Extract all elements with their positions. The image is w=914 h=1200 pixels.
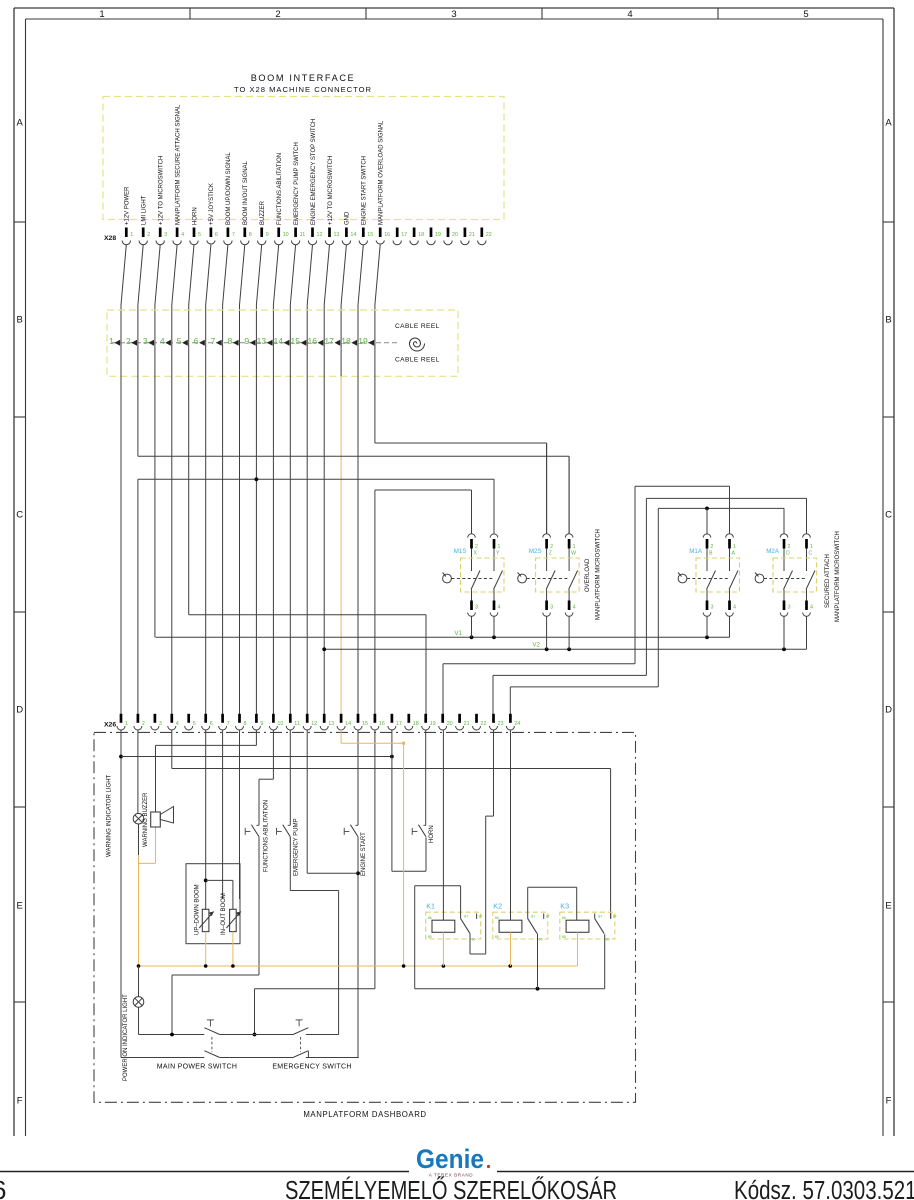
svg-text:14: 14: [274, 336, 284, 346]
svg-text:MANPLATFORM MICROSWITCH: MANPLATFORM MICROSWITCH: [835, 531, 841, 622]
svg-text:7: 7: [227, 721, 230, 727]
svg-text:1: 1: [130, 232, 133, 238]
svg-text:6: 6: [194, 336, 199, 346]
svg-text:C: C: [16, 510, 23, 521]
svg-text:20: 20: [452, 232, 458, 238]
svg-text:E: E: [17, 901, 23, 912]
svg-text:HORN: HORN: [429, 825, 435, 843]
svg-text:13: 13: [334, 232, 340, 238]
svg-text:MANPLATFORM OVERLOAD SIGNAL: MANPLATFORM OVERLOAD SIGNAL: [379, 120, 385, 225]
svg-text:Z: Z: [549, 551, 552, 557]
svg-text:23: 23: [498, 721, 504, 727]
svg-text:17: 17: [396, 721, 402, 727]
svg-text:9: 9: [260, 721, 263, 727]
svg-text:86: 86: [495, 916, 499, 920]
svg-text:M2A: M2A: [766, 548, 780, 555]
svg-text:M1A: M1A: [689, 548, 703, 555]
svg-text:CABLE REEL: CABLE REEL: [395, 323, 440, 330]
svg-text:10: 10: [283, 232, 289, 238]
svg-text:X26: X26: [104, 722, 116, 729]
svg-text:2: 2: [711, 544, 714, 550]
svg-text:3: 3: [788, 605, 791, 611]
svg-text:16: 16: [307, 336, 317, 346]
svg-text:6: 6: [0, 1175, 6, 1200]
svg-text:20: 20: [447, 721, 453, 727]
svg-text:SZEMÉLYEMELŐ SZERELŐKOSÁR: SZEMÉLYEMELŐ SZERELŐKOSÁR: [285, 1176, 617, 1200]
svg-text:+5V JOYSTICK: +5V JOYSTICK: [209, 183, 215, 225]
svg-text:2: 2: [550, 544, 553, 550]
svg-text:V1: V1: [454, 630, 462, 637]
svg-text:5: 5: [193, 721, 196, 727]
svg-text:M1S: M1S: [454, 548, 467, 555]
svg-text:B: B: [885, 315, 891, 326]
svg-text:14: 14: [350, 232, 356, 238]
svg-text:87: 87: [479, 915, 483, 919]
svg-text:19: 19: [435, 232, 441, 238]
svg-text:F: F: [17, 1096, 23, 1107]
svg-text:1: 1: [573, 544, 576, 550]
svg-text:WARNING BUZZER: WARNING BUZZER: [143, 792, 149, 847]
svg-text:WARNING INDICATOR LIGHT: WARNING INDICATOR LIGHT: [107, 774, 113, 857]
svg-text:17: 17: [401, 232, 407, 238]
svg-text:FUNCTIONS ABILITATION: FUNCTIONS ABILITATION: [277, 153, 283, 225]
svg-text:MANPLATFORM SECURE ATTACH SIGN: MANPLATFORM SECURE ATTACH SIGNAL: [175, 104, 181, 225]
svg-text:ENGINE START SWITCH: ENGINE START SWITCH: [362, 156, 368, 225]
svg-text:2: 2: [275, 9, 280, 20]
svg-text:2: 2: [126, 336, 131, 346]
svg-text:11: 11: [294, 721, 300, 727]
svg-text:87: 87: [546, 915, 550, 919]
svg-text:D: D: [885, 705, 892, 716]
svg-text:4: 4: [176, 721, 179, 727]
svg-text:12: 12: [317, 232, 323, 238]
svg-text:13: 13: [328, 721, 334, 727]
svg-text:21: 21: [469, 232, 475, 238]
svg-text:F: F: [886, 1096, 892, 1107]
svg-text:3: 3: [711, 605, 714, 611]
svg-text:K3: K3: [560, 902, 569, 911]
svg-text:22: 22: [481, 721, 487, 727]
svg-text:IN–OUT BOOM: IN–OUT BOOM: [221, 893, 227, 935]
svg-text:CABLE REEL: CABLE REEL: [395, 357, 440, 364]
svg-text:87: 87: [531, 915, 535, 919]
svg-text:18: 18: [418, 232, 424, 238]
svg-text:21: 21: [464, 721, 470, 727]
svg-text:SECURED ATTACH: SECURED ATTACH: [825, 554, 831, 608]
svg-text:5: 5: [177, 336, 182, 346]
svg-text:A: A: [732, 551, 736, 557]
svg-text:2: 2: [142, 721, 145, 727]
svg-text:MANPLATFORM DASHBOARD: MANPLATFORM DASHBOARD: [303, 1110, 426, 1119]
svg-text:MAIN POWER SWITCH: MAIN POWER SWITCH: [157, 1064, 238, 1071]
svg-text:4: 4: [573, 605, 576, 611]
svg-text:85: 85: [562, 935, 566, 939]
svg-text:8: 8: [244, 721, 247, 727]
svg-text:ENGINE EMERGENCY STOP SWITCH: ENGINE EMERGENCY STOP SWITCH: [311, 119, 317, 225]
svg-text:8: 8: [249, 232, 252, 238]
svg-text:K1: K1: [426, 902, 435, 911]
svg-text:HORN: HORN: [192, 207, 198, 225]
svg-text:ENGINE START: ENGINE START: [361, 832, 367, 876]
svg-text:EMERGENCY PUMP SWITCH: EMERGENCY PUMP SWITCH: [294, 142, 300, 225]
svg-text:POWER ON INDICATOR LIGHT: POWER ON INDICATOR LIGHT: [123, 994, 129, 1081]
svg-text:Y: Y: [496, 551, 500, 557]
svg-text:12: 12: [311, 721, 317, 727]
svg-text:UP–DOWN BOOM: UP–DOWN BOOM: [195, 884, 201, 935]
svg-text:MANPLATFORM MICROSWITCH: MANPLATFORM MICROSWITCH: [596, 529, 602, 620]
svg-text:6: 6: [210, 721, 213, 727]
svg-text:3: 3: [475, 605, 478, 611]
svg-text:+12V TO MICROSWITCH: +12V TO MICROSWITCH: [328, 156, 334, 225]
svg-text:3: 3: [550, 605, 553, 611]
svg-text:1: 1: [733, 544, 736, 550]
svg-text:15: 15: [290, 336, 300, 346]
svg-text:BOOM INTERFACE: BOOM INTERFACE: [251, 73, 356, 83]
svg-text:C: C: [885, 510, 892, 521]
svg-text:5: 5: [198, 232, 201, 238]
svg-text:87: 87: [464, 915, 468, 919]
svg-text:OVERLOAD: OVERLOAD: [585, 558, 591, 592]
svg-text:2: 2: [475, 544, 478, 550]
svg-text:87: 87: [613, 915, 617, 919]
svg-text:3: 3: [451, 9, 456, 20]
svg-text:D: D: [16, 705, 23, 716]
svg-text:10: 10: [277, 721, 283, 727]
svg-text:19: 19: [430, 721, 436, 727]
svg-text:4: 4: [181, 232, 184, 238]
svg-text:2: 2: [147, 232, 150, 238]
svg-text:13: 13: [257, 336, 267, 346]
svg-text:87: 87: [598, 915, 602, 919]
svg-text:EMERGENCY SWITCH: EMERGENCY SWITCH: [272, 1064, 351, 1071]
svg-text:18: 18: [341, 336, 351, 346]
svg-text:B: B: [709, 551, 713, 557]
svg-text:A: A: [885, 118, 892, 129]
svg-text:X28: X28: [104, 235, 116, 242]
svg-text:7: 7: [232, 232, 235, 238]
svg-text:GND: GND: [345, 211, 351, 225]
svg-text:4: 4: [627, 9, 632, 20]
svg-text:FUNCTIONS ABILITATION: FUNCTIONS ABILITATION: [264, 800, 270, 872]
svg-text:3: 3: [164, 232, 167, 238]
svg-text:6: 6: [215, 232, 218, 238]
svg-text:85: 85: [495, 935, 499, 939]
svg-text:4: 4: [733, 605, 736, 611]
svg-text:V2: V2: [532, 642, 540, 649]
svg-text:86: 86: [562, 916, 566, 920]
svg-text:1: 1: [99, 9, 104, 20]
svg-text:19: 19: [358, 336, 368, 346]
svg-text:9: 9: [266, 232, 269, 238]
svg-text:86: 86: [428, 916, 432, 920]
svg-text:TO X28 MACHINE CONNECTOR: TO X28 MACHINE CONNECTOR: [234, 85, 372, 94]
svg-text:9: 9: [244, 336, 249, 346]
svg-text:BOOM IN/OUT SIGNAL: BOOM IN/OUT SIGNAL: [243, 160, 249, 225]
svg-text:30: 30: [472, 938, 476, 942]
svg-text:8: 8: [228, 336, 233, 346]
svg-text:1: 1: [125, 721, 128, 727]
svg-text:85: 85: [428, 935, 432, 939]
svg-text:+12V TO MICROSWITCH: +12V TO MICROSWITCH: [159, 156, 165, 225]
svg-text:LMI LIGHT: LMI LIGHT: [142, 195, 148, 225]
svg-text:11: 11: [300, 232, 306, 238]
svg-text:M2S: M2S: [529, 548, 542, 555]
svg-text:14: 14: [345, 721, 351, 727]
svg-text:4: 4: [810, 605, 813, 611]
svg-text:1: 1: [810, 544, 813, 550]
svg-text:B: B: [17, 315, 23, 326]
svg-text:1: 1: [498, 544, 501, 550]
svg-text:30: 30: [539, 938, 543, 942]
svg-text:16: 16: [384, 232, 390, 238]
svg-text:K2: K2: [493, 902, 502, 911]
svg-text:BUZZER: BUZZER: [260, 200, 266, 225]
svg-text:A: A: [17, 118, 24, 129]
svg-text:3: 3: [143, 336, 148, 346]
svg-text:7: 7: [211, 336, 216, 346]
svg-text:E: E: [885, 901, 891, 912]
svg-text:W: W: [571, 551, 576, 557]
svg-text:4: 4: [160, 336, 165, 346]
svg-text:1: 1: [109, 336, 114, 346]
svg-text:17: 17: [324, 336, 334, 346]
svg-text:Kódsz. 57.0303.5213: Kódsz. 57.0303.5213: [734, 1177, 914, 1200]
svg-text:22: 22: [486, 232, 492, 238]
svg-text:BOOM UP/DOWN SIGNAL: BOOM UP/DOWN SIGNAL: [226, 152, 232, 225]
svg-text:18: 18: [413, 721, 419, 727]
svg-text:X: X: [474, 551, 478, 557]
svg-text:15: 15: [362, 721, 368, 727]
svg-text:C: C: [809, 551, 813, 557]
svg-text:30: 30: [606, 938, 610, 942]
svg-text:15: 15: [367, 232, 373, 238]
svg-text:+12V POWER: +12V POWER: [125, 186, 131, 225]
svg-text:24: 24: [514, 721, 520, 727]
svg-text:16: 16: [379, 721, 385, 727]
svg-text:4: 4: [498, 605, 501, 611]
svg-text:2: 2: [788, 544, 791, 550]
svg-text:3: 3: [159, 721, 162, 727]
svg-text:Genie: Genie: [416, 1144, 484, 1174]
svg-text:D: D: [786, 551, 790, 557]
svg-text:5: 5: [803, 9, 808, 20]
svg-text:EMERGENCY PUMP: EMERGENCY PUMP: [294, 818, 300, 876]
